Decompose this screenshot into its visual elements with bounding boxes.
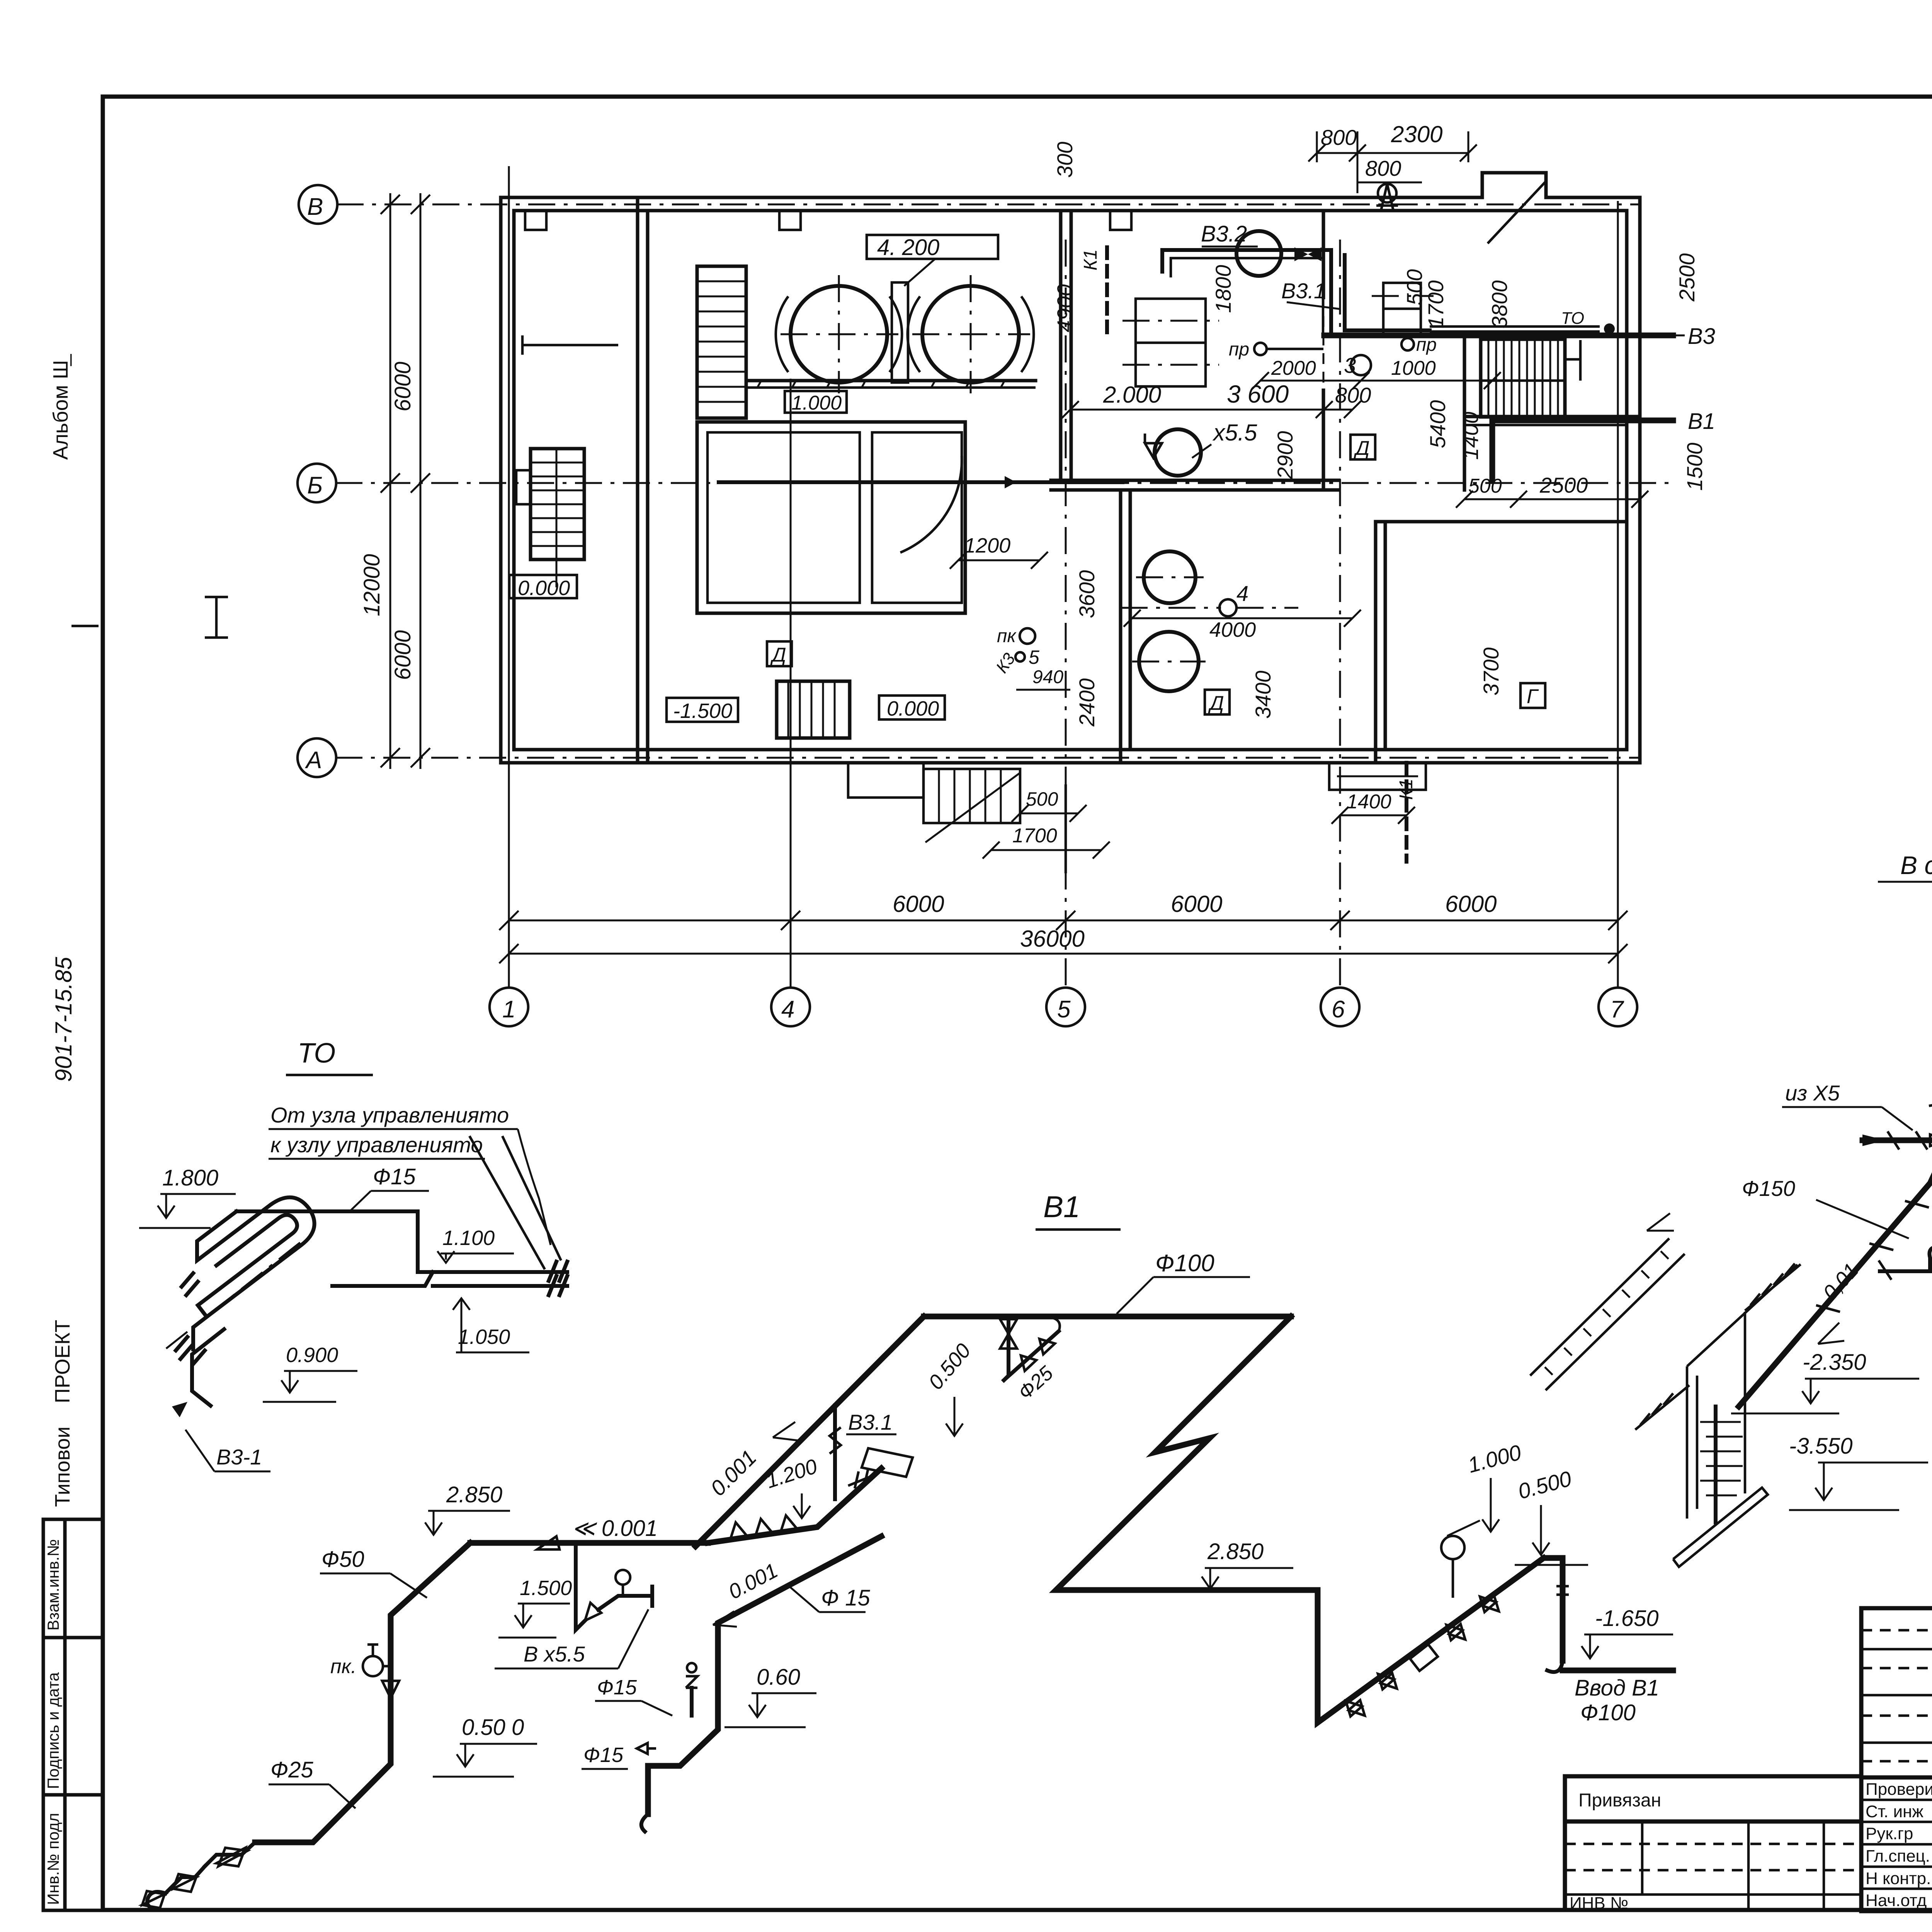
svg-text:4: 4 (1236, 581, 1248, 605)
svg-text:Ф 15: Ф 15 (821, 1585, 870, 1611)
svg-text:Инв.№ подл: Инв.№ подл (44, 1813, 62, 1905)
V1 title (1036, 1190, 1121, 1230)
left dim lines 12000/6000 (359, 193, 430, 769)
svg-text:940: 940 (1032, 667, 1063, 687)
svg-text:-1.650: -1.650 (1595, 1606, 1658, 1631)
label V3.1 (1281, 279, 1341, 309)
svg-text:4. 200: 4. 200 (877, 235, 939, 260)
svg-text:Д: Д (1354, 437, 1370, 459)
axis circle 1 (490, 988, 528, 1026)
pipe V3 exit (1324, 324, 1715, 349)
stamp left columns (1861, 1608, 1932, 1911)
svg-text:1400: 1400 (1458, 412, 1483, 460)
svg-text:Д: Д (770, 644, 786, 666)
iz X5 line (1782, 1081, 1932, 1150)
svg-text:3: 3 (1344, 353, 1356, 378)
svg-text:901-7-15.85: 901-7-15.85 (51, 957, 77, 1082)
stamp outer boxes (1861, 1608, 1932, 1911)
tank circle left (776, 275, 902, 393)
svg-text:-2.350: -2.350 (1803, 1350, 1866, 1375)
pk fixture (330, 1645, 391, 1678)
label V3-1 (172, 1402, 270, 1471)
valve near X5.5 (1145, 434, 1162, 458)
svg-text:0.000: 0.000 (518, 577, 570, 600)
level -3.550 (1789, 1434, 1928, 1510)
svg-text:≪ 0.001: ≪ 0.001 (572, 1516, 658, 1541)
svg-text:Ф100: Ф100 (1580, 1700, 1636, 1725)
fixture 5 hook (1879, 1213, 1932, 1280)
svg-text:1400: 1400 (1347, 791, 1391, 813)
svg-text:Нач.отд: Нач.отд (1866, 1891, 1927, 1910)
interior wall channel (638, 197, 648, 763)
dim 500 1700 bottom (983, 784, 1110, 873)
axis circle V (299, 185, 337, 224)
V1 left horizontal (470, 1516, 708, 1549)
dim 2.000 3600 800 row (1062, 380, 1371, 418)
svg-text:В3.1: В3.1 (848, 1410, 893, 1434)
F15 branches (582, 1663, 697, 1769)
K1 exit bottom (1332, 763, 1417, 862)
svg-text:Д: Д (1208, 692, 1224, 714)
rotated dims right part (1053, 142, 1707, 727)
svg-text:ИНВ №: ИНВ № (1570, 1894, 1628, 1913)
svg-text:из Х5: из Х5 (1785, 1081, 1840, 1105)
label F50 (320, 1547, 427, 1598)
vvod ground hatch (1530, 1213, 1685, 1390)
svg-text:500: 500 (1468, 475, 1502, 497)
level -2.350 (1731, 1350, 1919, 1413)
svg-text:В сеть К1: В сеть К1 (1900, 851, 1932, 879)
entry porch stairs (848, 763, 1020, 842)
fixtures 4 pk 5 (992, 581, 1361, 690)
svg-text:1200: 1200 (964, 534, 1010, 557)
circle X5.5 (1155, 420, 1257, 476)
svg-text:Ввод В1: Ввод В1 (1575, 1675, 1659, 1701)
dim 500 2500 (1456, 473, 1648, 508)
svg-text:Ф15: Ф15 (597, 1676, 637, 1699)
svg-text:2900: 2900 (1273, 431, 1297, 480)
stairwell walls right (1464, 417, 1640, 425)
left outside axis marks (71, 597, 228, 638)
svg-text:Ф50: Ф50 (321, 1547, 364, 1572)
svg-text:1.500: 1.500 (520, 1577, 572, 1600)
svg-text:В3.2: В3.2 (1201, 221, 1247, 247)
top dims 800 2300 800 (1308, 121, 1477, 193)
pedestal between tanks (892, 282, 908, 383)
axis circle 6 (1321, 988, 1359, 1026)
K3 vertical (1929, 1030, 1932, 1159)
svg-text:12000: 12000 (359, 554, 384, 616)
wall x3425 (1322, 211, 1325, 490)
svg-text:пр: пр (1416, 335, 1437, 355)
privyazan table (1565, 1776, 1861, 1913)
lower tanks D room (1132, 551, 1206, 691)
levels 1.000 0.500 right (1465, 1440, 1588, 1565)
level 1.050 (453, 1298, 529, 1352)
label D rooms (767, 435, 1545, 714)
label 0.500 rot (924, 1339, 975, 1436)
svg-text:х5.5: х5.5 (1212, 420, 1257, 446)
V1 main diagonal left (696, 1316, 924, 1546)
square tank A (1122, 299, 1219, 386)
svg-text:1.000: 1.000 (791, 392, 842, 414)
svg-text:2.850: 2.850 (446, 1482, 502, 1507)
svg-text:3 600: 3 600 (1227, 380, 1289, 408)
B stairs (516, 449, 584, 587)
TO line with dot (1430, 309, 1615, 334)
dim 1200 (950, 534, 1048, 569)
svg-text:пр: пр (1229, 339, 1249, 360)
chlorator room wall (1464, 335, 1478, 490)
svg-text:4000: 4000 (1209, 618, 1256, 641)
TO labels ot uzla (269, 1103, 551, 1245)
TO connections right (236, 1136, 567, 1295)
svg-text:3800: 3800 (1487, 280, 1512, 328)
svg-text:1.800: 1.800 (162, 1165, 218, 1190)
bottom small stairs (777, 681, 850, 738)
V1 service unit (1318, 1520, 1544, 1723)
T mark in left room (522, 335, 618, 355)
svg-text:5: 5 (1029, 646, 1039, 668)
svg-text:От узла управлениято: От узла управлениято (270, 1103, 509, 1127)
TO coil hairpin (166, 1197, 315, 1406)
axis line B(mid) (335, 482, 1673, 484)
label F15 TO (350, 1164, 429, 1211)
lower partition x2900 (1121, 490, 1130, 763)
svg-text:4: 4 (781, 996, 794, 1023)
svg-text:2.850: 2.850 (1207, 1539, 1264, 1564)
label V set K1 (1878, 851, 1932, 947)
level 0.60 (724, 1665, 816, 1727)
wall y1243 (1051, 480, 1339, 490)
svg-text:1700: 1700 (1423, 280, 1448, 328)
svg-text:3600: 3600 (1075, 570, 1099, 618)
axis verticals 1 4 5 6 7 (509, 166, 1618, 988)
svg-text:0.60: 0.60 (757, 1665, 800, 1690)
svg-text:6000: 6000 (1445, 891, 1497, 917)
platform hatch ticks (757, 381, 1005, 388)
svg-text:800: 800 (1321, 125, 1357, 150)
svg-text:Ф15: Ф15 (373, 1164, 416, 1189)
svg-text:0.50 0: 0.50 0 (462, 1715, 524, 1740)
V1 top horizontal (924, 1314, 1291, 1320)
svg-text:Б: Б (307, 472, 323, 499)
level 1.100 (437, 1226, 514, 1263)
svg-text:-1.500: -1.500 (673, 699, 732, 723)
bottom right porch (1329, 763, 1426, 790)
svg-text:В: В (307, 194, 323, 220)
K3 well (1673, 1265, 1798, 1567)
svg-text:4900: 4900 (1053, 284, 1077, 332)
svg-text:2400: 2400 (1075, 678, 1099, 727)
svg-text:6: 6 (1332, 996, 1345, 1023)
svg-text:1.100: 1.100 (442, 1226, 495, 1250)
svg-text:1700: 1700 (1012, 825, 1057, 847)
svg-text:6000: 6000 (390, 362, 415, 412)
level 1.500 (498, 1577, 572, 1638)
axis line A (335, 757, 1640, 759)
svg-text:В1: В1 (1043, 1190, 1080, 1224)
label 0.000 mid (879, 696, 945, 720)
room block upper-left of B (697, 422, 965, 613)
level 0.500 mid (433, 1715, 537, 1777)
svg-text:500: 500 (1026, 788, 1058, 810)
label F100 top (1117, 1250, 1250, 1314)
svg-text:2500: 2500 (1539, 473, 1588, 497)
svg-text:пк.: пк. (330, 1655, 357, 1678)
svg-text:1500: 1500 (1682, 442, 1707, 491)
svg-text:1800: 1800 (1211, 265, 1235, 313)
tank circle right (908, 275, 1034, 393)
middle fixture group (576, 1543, 652, 1630)
svg-text:Ст. инж: Ст. инж (1866, 1802, 1923, 1821)
svg-text:Взам.инв.№: Взам.инв.№ (44, 1539, 62, 1631)
vvod V1 (1544, 1558, 1673, 1725)
svg-text:3400: 3400 (1251, 670, 1275, 719)
svg-text:2500: 2500 (1675, 253, 1699, 302)
svg-text:6000: 6000 (893, 891, 944, 917)
V1 right break zigzag (1056, 1316, 1318, 1590)
dim 2000 1000 (1252, 357, 1501, 389)
svg-text:А: А (304, 747, 322, 774)
branch F25 (1000, 1316, 1060, 1404)
ground hatch lower (1635, 1385, 1689, 1430)
level 1.200 (763, 1455, 820, 1518)
svg-text:Типовои ПРОЕКТ: Типовои ПРОЕКТ (51, 1320, 74, 1507)
wall column marks (525, 211, 1131, 230)
ground hatch upper (1745, 1264, 1801, 1311)
svg-text:Гл.спец.: Гл.спец. (1866, 1847, 1930, 1866)
svg-text:2000: 2000 (1271, 357, 1316, 379)
axis circle B (298, 464, 336, 502)
K3 pipe bottom (719, 476, 1122, 488)
svg-text:В3: В3 (1688, 324, 1715, 349)
svg-text:ТО: ТО (298, 1038, 335, 1069)
svg-text:Альбом Ш̲̲: Альбом Ш̲̲ (49, 354, 72, 460)
F25 zigzag valves (142, 1842, 255, 1909)
svg-text:7: 7 (1610, 996, 1624, 1023)
left margin vertical texts (49, 354, 77, 1507)
svg-text:Н контр.: Н контр. (1866, 1869, 1931, 1888)
svg-text:3700: 3700 (1479, 647, 1503, 696)
svg-text:2300: 2300 (1391, 121, 1442, 147)
svg-text:Г: Г (1527, 685, 1539, 708)
axis circle 7 (1599, 988, 1637, 1026)
svg-text:К1: К1 (1080, 249, 1101, 270)
right bay diagonal (1488, 182, 1546, 243)
svg-text:Ф15: Ф15 (583, 1743, 624, 1767)
label 0.000 left (509, 575, 577, 600)
pipe hook upper (1162, 250, 1430, 335)
svg-text:К1: К1 (1396, 779, 1417, 800)
label V x5.5 (495, 1609, 648, 1668)
level -1.650 V1 (1582, 1606, 1673, 1658)
pr fixtures (1229, 335, 1437, 378)
svg-text:5400: 5400 (1425, 400, 1450, 448)
label -1.500 (667, 698, 738, 723)
upper stairs (697, 266, 746, 418)
svg-text:пк: пк (997, 626, 1017, 646)
level 2.850 right (1202, 1539, 1293, 1589)
svg-text:В1: В1 (1688, 409, 1715, 434)
svg-text:ТО: ТО (1561, 309, 1584, 328)
exterior walls (501, 173, 1640, 763)
svg-text:800: 800 (1335, 383, 1371, 407)
svg-text:5: 5 (1057, 996, 1071, 1023)
svg-text:Ф150: Ф150 (1742, 1176, 1795, 1201)
platform edge 1.000 (746, 381, 1036, 388)
svg-text:В3-1: В3-1 (216, 1445, 262, 1469)
V1 down to F25 (255, 1543, 470, 1842)
K3 lower diagonal (1739, 1159, 1932, 1406)
svg-text:к узлу управлениято: к узлу управлениято (270, 1133, 483, 1157)
bottom dim lines 6000x3 36000 (499, 891, 1628, 963)
svg-text:1.050: 1.050 (458, 1325, 510, 1349)
svg-text:1: 1 (502, 996, 515, 1023)
svg-text:2.000: 2.000 (1103, 382, 1161, 408)
level 1.800 (139, 1165, 236, 1228)
svg-text:500: 500 (1402, 269, 1427, 305)
svg-text:800: 800 (1365, 156, 1401, 180)
lower right diagonal 0.001 F15 (641, 1536, 881, 1832)
level 0.900 (263, 1344, 357, 1402)
branch V3.1 (830, 1405, 913, 1499)
lower partition x3560 (1376, 522, 1627, 763)
svg-text:6000: 6000 (1171, 891, 1222, 917)
svg-text:Рук.гр: Рук.гр (1866, 1824, 1913, 1843)
svg-text:0.900: 0.900 (286, 1344, 338, 1367)
label 1.000 (785, 391, 847, 414)
svg-text:Ф25: Ф25 (270, 1757, 313, 1782)
axis line B (337, 204, 1640, 206)
top entry canopy (1376, 184, 1398, 211)
level 2.850 left (425, 1482, 510, 1535)
pipe V1 exit (1492, 409, 1715, 480)
svg-text:6000: 6000 (390, 630, 415, 680)
stamp role labels (1866, 1780, 1932, 1910)
svg-text:0.000: 0.000 (887, 697, 939, 720)
svg-text:300: 300 (1053, 142, 1077, 178)
label 4.200 (867, 235, 998, 286)
TO title (286, 1038, 373, 1075)
svg-text:Проверил: Проверил (1866, 1780, 1932, 1799)
svg-text:1000: 1000 (1391, 357, 1436, 379)
svg-text:В3.1: В3.1 (1281, 279, 1326, 303)
svg-text:36000: 36000 (1020, 926, 1085, 952)
svg-text:В х5.5: В х5.5 (524, 1642, 585, 1666)
valves at junction right (708, 1468, 881, 1543)
K1 riser dashed (1080, 247, 1107, 340)
svg-text:Подпись и дата: Подпись и дата (44, 1672, 62, 1789)
circle V3.2 (1201, 221, 1321, 276)
left bottom small table (43, 1519, 103, 1910)
svg-text:-3.550: -3.550 (1789, 1434, 1852, 1459)
axis circle 5 (1046, 988, 1085, 1026)
svg-text:Ф100: Ф100 (1155, 1250, 1214, 1277)
axis circle 4 (771, 988, 810, 1026)
svg-text:Привязан: Привязан (1578, 1790, 1661, 1811)
stairwell stairs right (1481, 339, 1580, 417)
axis circle A (298, 738, 336, 777)
interior wall x2745 (1061, 211, 1071, 480)
square tank B (1372, 283, 1434, 335)
